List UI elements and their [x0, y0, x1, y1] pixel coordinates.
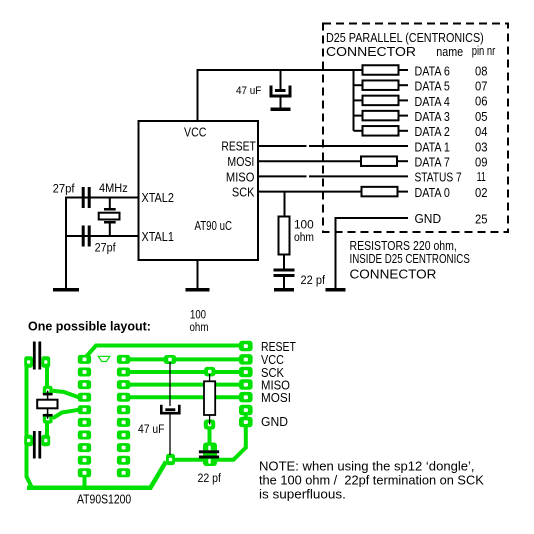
wire XTAL1 [66, 235, 139, 237]
node IC pad R10 [117, 468, 130, 477]
svg-text:CONNECTOR: CONNECTOR [350, 267, 437, 282]
node IC notch marker [98, 356, 110, 361]
node via pad R9 top [204, 367, 215, 377]
svg-text:MOSI: MOSI [227, 154, 254, 169]
svg-text:VCC: VCC [184, 124, 207, 139]
hole connector pad VCC [244, 358, 248, 362]
holes crystal pads [46, 389, 49, 421]
node IC pad L5 [78, 405, 91, 414]
svg-text:07: 07 [475, 79, 488, 94]
resistor R8 100 ohm [279, 217, 290, 255]
svg-text:11: 11 [477, 170, 486, 184]
hole slot C6 bottom [208, 459, 210, 464]
wire trace R9 to C6 [208, 428, 212, 445]
node IC pad R2 [117, 368, 130, 377]
svg-text:DATA 1: DATA 1 [415, 139, 451, 154]
hole pad R9 bottom [208, 423, 212, 427]
hole via 47uF top [168, 358, 172, 362]
wire trace pad10 to ground rail [83, 473, 87, 488]
svg-text:03: 03 [475, 140, 488, 155]
node cap pad top-left [24, 356, 33, 367]
capacitor C4 22pf [274, 269, 295, 278]
node IC pad L7 [78, 431, 91, 440]
svg-text:4MHz: 4MHz [99, 183, 128, 196]
svg-text:22 pf: 22 pf [198, 472, 222, 485]
svg-text:CONNECTOR: CONNECTOR [326, 44, 416, 58]
svg-text:One possible layout:: One possible layout: [28, 318, 151, 333]
svg-text:02: 02 [475, 185, 488, 200]
svg-text:05: 05 [475, 109, 488, 124]
wire GND drop [335, 218, 337, 289]
node crystal pad bottom [43, 414, 53, 424]
resistor R1 220ohm DATA6 [354, 65, 409, 75]
wire U1 ground stub [197, 260, 199, 289]
holes IC pads left [83, 358, 87, 475]
wire R8 to C4 [283, 255, 285, 270]
wire trace left ground rail [27, 360, 33, 488]
node IC pad R3 [117, 380, 130, 389]
hole connector pad MOSI [244, 395, 248, 399]
crystal X1 4MHz [99, 198, 120, 237]
resistor R6 220ohm DATA7 [361, 156, 408, 166]
svg-text:INSIDE D25 CENTRONICS: INSIDE D25 CENTRONICS [350, 253, 471, 267]
ground under GND wire [326, 288, 346, 292]
wire VCC rail [197, 69, 355, 71]
op-amp U1 AT90 uC box [139, 121, 259, 260]
hole slot C6 top [208, 446, 210, 451]
svg-text:47 uF: 47 uF [138, 423, 165, 436]
wire trace bottom ground rail [27, 462, 166, 488]
ground under C4 [274, 288, 294, 292]
svg-text:27pf: 27pf [95, 242, 117, 255]
hole connector pad RESET [244, 344, 248, 348]
svg-text:STATUS 7: STATUS 7 [415, 170, 462, 184]
node pad C5 47uF bottom [166, 454, 175, 465]
ground under U1 [186, 288, 210, 292]
node crystal pad top [43, 386, 53, 396]
resistor R2 220ohm DATA5 [354, 80, 409, 90]
svg-text:ohm: ohm [190, 321, 209, 334]
svg-text:pin nr: pin nr [472, 45, 496, 59]
capacitor C3 27pf bottom [82, 226, 91, 247]
node connector pad VCC [239, 354, 253, 365]
resistor R5 220ohm DATA2 [354, 126, 409, 136]
wire trace XTAL1 layout [53, 410, 79, 419]
wire resistor bus vertical [353, 69, 355, 131]
wire trace SCK layout [130, 370, 239, 374]
wire MOSI [258, 160, 361, 162]
svg-text:DATA 2: DATA 2 [415, 124, 451, 139]
wire trace GND down to C6 [209, 421, 246, 460]
svg-text:is superfluous.: is superfluous. [259, 487, 346, 502]
node IC pad L9 [78, 456, 91, 465]
wire trace C5 pad to C6 pad [170, 458, 205, 462]
svg-text:22 pf: 22 pf [301, 275, 326, 287]
hole connector pad spare [244, 408, 248, 412]
node cap pad bottom-right [41, 435, 50, 446]
svg-text:D25 PARALLEL (CENTRONICS): D25 PARALLEL (CENTRONICS) [326, 30, 484, 45]
hole via R9 top [208, 370, 212, 374]
svg-text:ohm: ohm [294, 232, 314, 245]
svg-text:47 uF: 47 uF [236, 86, 261, 98]
svg-text:DATA 6: DATA 6 [415, 63, 451, 78]
holes cap pads [27, 360, 47, 442]
node cap pad bottom-left [24, 435, 33, 446]
node IC pad L3 [78, 380, 91, 389]
node IC pad R1 [117, 355, 130, 364]
node pad R9 bottom [204, 420, 215, 430]
node connector pad RESET [239, 341, 253, 352]
node IC pad R5 [117, 405, 130, 414]
crystal X1 layout symbol [37, 391, 57, 419]
node IC pad R6 [117, 418, 130, 427]
svg-text:100: 100 [190, 309, 206, 322]
svg-text:NOTE: when using the sp12 ‘don: NOTE: when using the sp12 ‘dongle’, [259, 458, 475, 473]
svg-text:the 100 ohm / 22pf terminatio: the 100 ohm / 22pf termination on SCK [259, 472, 484, 487]
node via pad 47uF top [164, 355, 177, 364]
wire left ground rail [65, 197, 67, 290]
wire trace crystal to cap bottom [45, 419, 49, 441]
wire C4 ground stub [283, 277, 285, 289]
node IC pad L6 [78, 418, 91, 427]
svg-text:name: name [436, 44, 463, 59]
svg-text:GND: GND [415, 212, 442, 227]
node connector pad spare [239, 405, 253, 416]
svg-text:XTAL2: XTAL2 [142, 190, 175, 205]
wire GND pin 25 [335, 217, 409, 219]
wire trace XTAL2 layout [53, 391, 79, 397]
svg-text:DATA 3: DATA 3 [415, 109, 451, 124]
wire trace GND pads bridge [244, 410, 248, 422]
svg-text:DATA 0: DATA 0 [415, 185, 451, 200]
wire SCK [258, 191, 362, 193]
svg-text:09: 09 [475, 155, 488, 170]
wire 47uF top lead [280, 70, 282, 90]
svg-text:08: 08 [475, 64, 488, 79]
svg-text:04: 04 [475, 124, 488, 139]
wire VCC stub to U1 [197, 69, 199, 122]
svg-text:RESISTORS 220 ohm,: RESISTORS 220 ohm, [350, 238, 457, 253]
node cap pad top-right [41, 356, 50, 367]
svg-text:100: 100 [294, 217, 314, 231]
svg-text:GND: GND [261, 415, 288, 429]
node connector pad MISO [239, 379, 253, 390]
node connector pad MOSI [239, 392, 253, 403]
svg-text:DATA 4: DATA 4 [415, 94, 451, 109]
wire trace VCC layout [130, 357, 239, 361]
capacitor C2 27pf top [82, 187, 91, 208]
svg-text:AT90 uC: AT90 uC [195, 220, 232, 234]
svg-text:DATA 7: DATA 7 [415, 155, 451, 170]
svg-text:06: 06 [475, 94, 488, 109]
node IC pad L2 [78, 368, 91, 377]
holes IC pads right [122, 358, 126, 475]
capacitor C5 47uF layout symbol [161, 362, 179, 455]
node IC pad R9 [117, 456, 130, 465]
svg-text:SCK: SCK [232, 185, 254, 200]
hole connector pad MISO [244, 383, 248, 387]
wire MISO to STATUS7 [258, 175, 408, 177]
node IC pad L1 [78, 355, 91, 364]
node pad block C6 22pf [203, 443, 217, 467]
svg-text:RESET: RESET [221, 139, 255, 153]
resistor R9 100ohm layout [204, 374, 215, 425]
node IC pad R4 [117, 393, 130, 402]
wire trace MOSI layout [130, 395, 239, 399]
hole pad C5 [169, 458, 172, 461]
resistor R3 220ohm DATA4 [354, 96, 409, 106]
wire trace MISO layout [130, 383, 239, 387]
svg-text:25: 25 [475, 212, 488, 227]
capacitor C8 27pf layout bottom plates [33, 431, 41, 459]
resistor R4 220ohm DATA3 [354, 111, 409, 121]
svg-text:XTAL1: XTAL1 [142, 229, 175, 244]
svg-text:MOSI: MOSI [261, 390, 291, 405]
node IC pad L8 [78, 443, 91, 452]
node IC pad R8 [117, 443, 130, 452]
hole connector pad SCK [244, 370, 248, 374]
svg-text:MISO: MISO [226, 169, 255, 184]
wire XTAL2 [66, 197, 139, 199]
wire RESET to DATA1 [258, 145, 408, 147]
connector J1 D25 dashed outline [323, 24, 508, 233]
wire SCK drop to R8 [284, 192, 286, 217]
node IC pad L4 [78, 393, 91, 402]
capacitor C1 47uF electrolytic [271, 86, 290, 109]
capacitor C7 27pf layout top plates [33, 342, 41, 370]
wire trace cap to crystal top [45, 362, 49, 390]
svg-text:DATA 5: DATA 5 [415, 79, 451, 94]
wire trace RESET layout [85, 346, 246, 359]
node IC pad L10 [78, 468, 91, 477]
svg-text:27pf: 27pf [53, 182, 76, 195]
resistor R7 220ohm DATA0 [362, 187, 409, 197]
node IC pad R7 [117, 431, 130, 440]
hole connector pad GND [244, 420, 248, 424]
ground under C1 [271, 108, 291, 112]
ground left rail [53, 288, 79, 292]
node connector pad SCK [239, 367, 253, 378]
capacitor C6 22pf layout plates [199, 450, 219, 458]
node connector pad GND [239, 417, 253, 428]
svg-text:AT90S1200: AT90S1200 [77, 493, 132, 507]
